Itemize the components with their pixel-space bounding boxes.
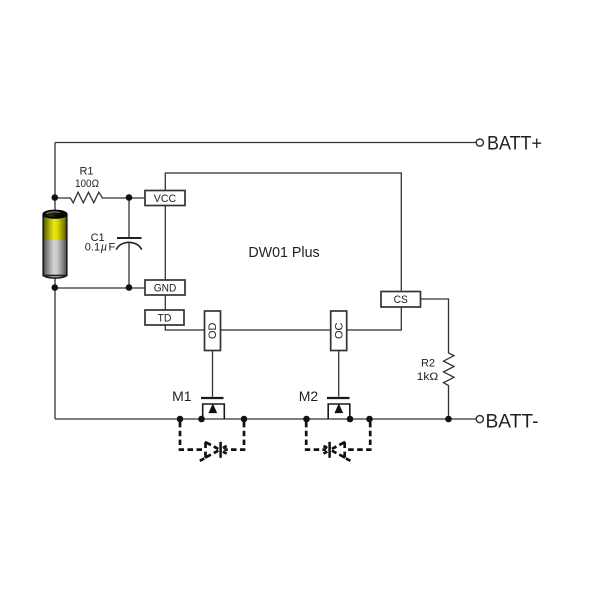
svg-text:R1: R1 [79,166,93,178]
svg-text:BATT-: BATT- [486,412,539,433]
svg-text:0.1µF: 0.1µF [85,242,116,254]
svg-text:M2: M2 [299,388,319,404]
svg-text:GND: GND [154,283,177,295]
svg-text:1kΩ: 1kΩ [417,371,439,383]
svg-text:100Ω: 100Ω [75,178,99,190]
svg-text:BATT+: BATT+ [487,134,542,155]
svg-text:OC: OC [333,322,345,339]
svg-text:DW01 Plus: DW01 Plus [248,244,319,261]
svg-text:R2: R2 [421,358,435,370]
svg-text:CS: CS [394,294,408,306]
svg-text:OD: OD [207,322,219,339]
svg-text:M1: M1 [172,388,192,404]
svg-text:VCC: VCC [154,193,176,205]
svg-text:TD: TD [158,313,172,325]
